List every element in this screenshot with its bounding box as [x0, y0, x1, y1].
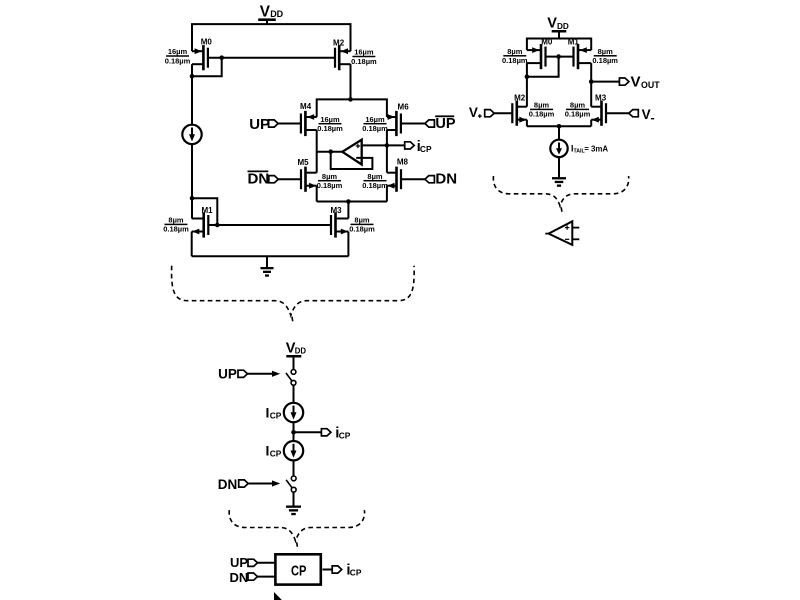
svg-text:CP: CP — [291, 563, 307, 579]
svg-text:DD: DD — [557, 22, 569, 31]
svg-text:CP: CP — [270, 410, 282, 420]
op-amp U1 — [342, 140, 361, 165]
node M1 gate tap — [215, 223, 220, 228]
pin V+ input — [485, 110, 495, 117]
wire UP to M4 gate — [278, 123, 301, 125]
wire M1-M3 gate rail — [208, 224, 331, 226]
pin UPbar input — [425, 120, 435, 127]
svg-text:M0: M0 — [201, 38, 213, 47]
transistor M0 amplifier — [544, 47, 546, 67]
wire DN to CP block — [258, 576, 275, 578]
transistor M8 — [400, 169, 402, 189]
svg-text:8µm: 8µm — [507, 47, 522, 56]
node VOUT junction — [589, 79, 594, 84]
svg-text:CP: CP — [420, 144, 432, 154]
svg-text:M5: M5 — [297, 158, 309, 167]
svg-text:16µm: 16µm — [320, 115, 340, 124]
wire M8 gate to DN pin — [401, 178, 425, 180]
pin V- input — [629, 110, 639, 117]
brace model — [229, 510, 364, 548]
svg-text:0.18µm: 0.18µm — [502, 56, 528, 65]
node M0 amp drain junction — [525, 74, 530, 79]
svg-text:8µm: 8µm — [168, 216, 183, 225]
svg-text:CP: CP — [270, 449, 282, 459]
wire M0 drain to current source — [191, 64, 193, 125]
svg-text:UP: UP — [435, 116, 455, 132]
node M1 drain junction — [190, 196, 195, 201]
wire M5 source down — [316, 186, 318, 202]
wire DNbar to M5 gate — [278, 178, 301, 180]
wire tail rail — [527, 125, 591, 127]
svg-text:0.18µm: 0.18µm — [349, 225, 375, 234]
svg-text:0.18µm: 0.18µm — [565, 110, 591, 119]
wire mirror diode connection — [527, 57, 559, 77]
svg-text:0.18µm: 0.18µm — [317, 124, 343, 133]
svg-text:16µm: 16µm — [354, 48, 374, 57]
wire M3 amp source down — [590, 120, 592, 127]
pin DN input — [425, 176, 435, 183]
wire ICP junction — [293, 422, 295, 441]
wire M8 source down — [386, 186, 388, 202]
svg-text:M2: M2 — [514, 94, 526, 103]
svg-text:DN: DN — [435, 171, 457, 188]
wire M3 gate to V- pin — [606, 112, 629, 114]
wire iCP model output — [294, 431, 322, 433]
transistor M1 — [207, 215, 209, 235]
svg-text:16µm: 16µm — [168, 47, 188, 56]
svg-text:V: V — [631, 74, 641, 91]
current source IB — [182, 125, 201, 144]
node tail tap — [557, 124, 562, 129]
svg-text:M3: M3 — [595, 93, 607, 102]
switch DN — [291, 476, 296, 481]
transistor M5 — [300, 169, 302, 189]
wire DN arrow — [248, 483, 273, 485]
wire M0 amp drain to M2 drain — [526, 63, 528, 107]
svg-text:8µm: 8µm — [367, 172, 382, 181]
node M2 drain to switch rail — [348, 97, 353, 102]
svg-text:CP: CP — [350, 567, 362, 577]
wire switch DN to ground — [293, 492, 295, 506]
wire current source to M1 drain — [191, 144, 193, 218]
power VDD symbol — [258, 18, 276, 21]
svg-text:16µm: 16µm — [365, 115, 385, 124]
svg-text:8µm: 8µm — [354, 216, 369, 225]
node M0 gate-drain tap — [219, 55, 224, 60]
svg-text:M4: M4 — [300, 102, 312, 111]
svg-text:8µm: 8µm — [534, 101, 549, 110]
pin iCP output — [405, 142, 415, 149]
wire M2 drain down — [350, 64, 352, 99]
wire ground rail — [192, 255, 349, 257]
svg-text:M6: M6 — [398, 102, 410, 111]
transistor M2 — [334, 48, 336, 68]
node iCP output junction — [385, 143, 390, 148]
node M3 drain junction — [346, 199, 351, 204]
brace amplifier — [493, 176, 628, 213]
transistor M2 amplifier — [511, 103, 513, 123]
svg-text:UP: UP — [249, 116, 270, 133]
svg-text:V: V — [642, 107, 651, 122]
svg-text:DD: DD — [295, 347, 307, 356]
svg-text:M1: M1 — [201, 206, 213, 215]
op-amp symbol (amplifier equivalent) — [549, 221, 573, 245]
wire switch to ICP source 1 — [293, 385, 295, 403]
node mirror gate tap — [556, 54, 561, 59]
svg-text:M1: M1 — [568, 37, 580, 46]
svg-text:OUT: OUT — [641, 80, 660, 90]
wire V+ to M2 gate — [494, 112, 512, 114]
pin DN model — [239, 480, 249, 487]
switch UP — [291, 370, 296, 375]
wire current source to ground — [558, 157, 560, 177]
wire UP arrow — [247, 373, 274, 375]
svg-text:UP: UP — [230, 555, 248, 570]
svg-text:UP: UP — [218, 367, 237, 382]
transistor M4 — [300, 114, 302, 134]
current source ICP lower — [284, 441, 303, 460]
transistor M3 amplifier — [605, 103, 607, 123]
pin DN block — [248, 573, 258, 580]
current source ITAIL — [550, 140, 567, 157]
svg-text:V: V — [547, 16, 557, 32]
mouse cursor — [274, 592, 282, 600]
svg-text:CP: CP — [339, 430, 351, 440]
current source ICP upper — [284, 403, 303, 422]
svg-text:V: V — [260, 4, 271, 21]
svg-text:M8: M8 — [397, 158, 409, 167]
node iCP model output junction — [291, 430, 296, 435]
wire M6 gate to UPbar pin — [401, 123, 425, 125]
svg-text:0.18µm: 0.18µm — [529, 110, 555, 119]
ground model — [286, 506, 301, 508]
svg-text:0.18µm: 0.18µm — [362, 124, 388, 133]
pin iCP model output — [321, 429, 331, 436]
svg-text:0.18µm: 0.18µm — [362, 181, 388, 190]
wire tail to current source — [558, 126, 560, 140]
svg-text:M0: M0 — [541, 37, 553, 46]
wire UP to CP block — [258, 562, 275, 564]
wire M1 source to ground rail — [191, 232, 193, 257]
pin UP block — [248, 559, 258, 566]
ground amplifier — [552, 177, 566, 179]
wire M1 amp drain to M3 drain — [590, 63, 592, 107]
brace main charge pump — [172, 266, 415, 323]
wire M1 diode connection — [192, 198, 217, 225]
wire CP block output — [323, 569, 333, 571]
transistor M0 — [207, 48, 209, 68]
wire M6 drain / M8 drain (output branch) — [386, 130, 388, 173]
svg-text:0.18µm: 0.18µm — [592, 56, 618, 65]
wire ICP source 2 to switch DN — [293, 460, 295, 476]
ground main circuit — [266, 256, 268, 267]
svg-text:DN: DN — [230, 570, 249, 585]
transistor M1 amplifier — [572, 47, 574, 67]
power VDD symbol right — [552, 30, 567, 33]
pin UP model — [238, 370, 248, 377]
node M0 drain junction — [190, 74, 195, 79]
wire M3 source to ground rail — [347, 232, 349, 257]
svg-text:= 3mA: = 3mA — [584, 144, 608, 153]
svg-text:DD: DD — [270, 9, 283, 19]
pin iCP block output — [332, 566, 342, 573]
svg-text:M3: M3 — [330, 206, 342, 215]
wire M0-M2 gate rail — [208, 57, 335, 59]
svg-text:M2: M2 — [333, 38, 345, 47]
transistor M6 — [400, 114, 402, 134]
wire VOUT — [591, 81, 619, 83]
wire switch-pair bottom rail — [317, 201, 387, 203]
wire op-amp feedback loop — [331, 152, 373, 169]
svg-text:0.18µm: 0.18µm — [165, 56, 191, 65]
node op-amp output feedback tap — [328, 149, 333, 154]
pin UP input — [269, 120, 279, 127]
svg-text:8µm: 8µm — [570, 101, 585, 110]
svg-text:0.18µm: 0.18µm — [163, 225, 189, 234]
svg-text:V: V — [469, 105, 478, 120]
wire mirror gate rail — [546, 56, 574, 58]
wire VDD top rail — [192, 24, 351, 51]
wire M4 drain / M5 drain (dump node) — [316, 130, 318, 173]
pin DNbar input — [269, 176, 279, 183]
pin VOUT output — [619, 78, 629, 85]
power VDD symbol model — [286, 355, 301, 358]
wire VDD rail right — [527, 39, 591, 51]
svg-text:0.18µm: 0.18µm — [317, 181, 343, 190]
transistor M3 — [330, 215, 332, 235]
wire M2 amp source down — [526, 120, 528, 127]
block CP — [275, 554, 320, 584]
wire switch-pair top rail — [317, 99, 387, 117]
svg-text:0.18µm: 0.18µm — [351, 57, 377, 66]
wire M0 diode connection — [192, 58, 222, 77]
svg-text:DN: DN — [218, 477, 238, 492]
svg-text:8µm: 8µm — [598, 47, 613, 56]
svg-text:8µm: 8µm — [322, 172, 337, 181]
wire M3 drain up — [347, 202, 349, 219]
wire dump node to op-amp output — [317, 151, 343, 153]
svg-text:DN: DN — [248, 170, 270, 187]
wire op-amp plus input / iCP output — [362, 144, 405, 146]
